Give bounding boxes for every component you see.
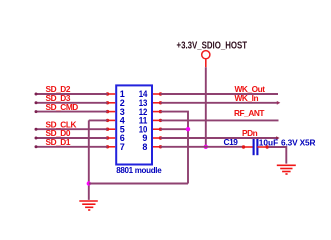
svg-text:7: 7 [120, 142, 125, 152]
wire power vertical [205, 67, 207, 147]
power port stub [205, 59, 207, 67]
wire RF_ANT [161, 119, 279, 121]
wire ground rail bottom [89, 183, 188, 185]
wire SD_D3 [36, 102, 108, 104]
wire WK_In [161, 102, 278, 104]
IC U1 8801 module body [116, 85, 152, 164]
wire pin4 to ground vertical [89, 119, 108, 121]
svg-text:RF_ANT: RF_ANT [234, 108, 264, 118]
wire pin12 down [161, 112, 189, 184]
wire SD_CLK [36, 128, 108, 130]
wire SD_CMD [36, 111, 108, 113]
capacitor C19 left pin stub [242, 146, 253, 148]
ground symbol left [79, 201, 98, 210]
wire cap to ground corner [268, 147, 286, 164]
IC right pin stubs [153, 94, 161, 147]
wire ground vertical left [88, 120, 90, 199]
IC pin numbers left [120, 89, 125, 152]
junction pin10 [186, 127, 190, 131]
wire PDn [161, 137, 277, 139]
IC left pin stubs [108, 94, 116, 147]
IC pin numbers right [139, 89, 148, 152]
junction ground rail left [87, 181, 91, 185]
wire WK_Out [161, 93, 279, 95]
svg-text:SD_CMD: SD_CMD [46, 102, 79, 112]
svg-text:C19: C19 [224, 137, 239, 147]
ground symbol right [277, 165, 296, 174]
power port +3.3V_SDIO_HOST label [177, 40, 248, 51]
svg-text:PDn: PDn [242, 128, 258, 138]
svg-text:8801 moudle: 8801 moudle [116, 166, 162, 175]
svg-text:WK_In: WK_In [235, 93, 259, 103]
svg-text:+3.3V_SDIO_HOST: +3.3V_SDIO_HOST [177, 40, 248, 51]
capacitor C19 plates [253, 139, 255, 155]
wire pin8 rail to cap [161, 146, 243, 148]
wire SD_D2 [36, 93, 108, 95]
junction power rail [204, 145, 208, 149]
svg-text:8: 8 [142, 142, 147, 152]
power port circle [202, 51, 210, 59]
wire pin10 stub [161, 128, 189, 130]
wire SD_D1 [36, 146, 108, 148]
svg-text:SD_D1: SD_D1 [46, 137, 71, 147]
wire SD_D0 [36, 137, 108, 139]
capacitor C19 right pin stub [257, 146, 268, 148]
IC right pin dots [159, 92, 162, 148]
IC left pin dots [106, 92, 109, 148]
